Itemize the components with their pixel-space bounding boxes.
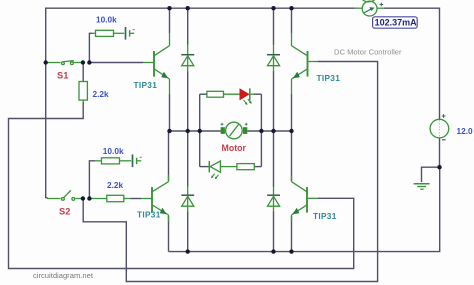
diode D1 bbox=[181, 44, 194, 72]
wire D2 top bbox=[273, 8, 275, 45]
svg-text:S2: S2 bbox=[59, 207, 70, 217]
wire ground tap bbox=[422, 167, 440, 182]
wire mid node right bbox=[247, 130, 291, 132]
junction top rail at Q2 collector bbox=[289, 6, 293, 10]
svg-text:circuitdiagram.net: circuitdiagram.net bbox=[33, 271, 94, 280]
wire subcircuit left vertical bbox=[199, 94, 201, 166]
wire R2 bottom to Q4 base bbox=[9, 102, 354, 269]
wire battery V1 to ground junction bbox=[439, 138, 441, 167]
ammeter readout box 102.37mA bbox=[373, 17, 418, 28]
wire Q1 collector rail bbox=[169, 8, 171, 33]
wire top rail right bbox=[384, 8, 440, 119]
battery +V symbol at R1 bbox=[126, 27, 135, 40]
junction mid node at Q2 emitter bbox=[289, 129, 293, 133]
diode D3 bbox=[181, 186, 194, 212]
battery +V symbol at R3 bbox=[133, 155, 142, 168]
junction top rail at D1 bbox=[186, 6, 190, 10]
junction bottom rail at Q4 emitter bbox=[289, 249, 293, 253]
switch S1 bbox=[47, 61, 82, 65]
junction ground tap bbox=[437, 165, 441, 169]
wire left feed S1 to S2 bbox=[46, 63, 48, 198]
wire D3 top bbox=[187, 131, 189, 187]
junction bottom rail at D4 bbox=[271, 249, 275, 253]
resistor R5 top branch bbox=[207, 91, 240, 97]
svg-text:2.2k: 2.2k bbox=[107, 180, 124, 190]
resistor R3 10.0k lower bbox=[95, 158, 131, 164]
transistor Q4 TIP31 lower-right (mirrored) bbox=[292, 175, 319, 222]
wire Q3 collector to mid node bbox=[168, 131, 170, 181]
transistor Q2 TIP31 (mirrored) bbox=[292, 33, 319, 95]
ground symbol bbox=[414, 184, 430, 190]
wire D1 bottom bbox=[187, 71, 189, 131]
svg-text:102.37mA: 102.37mA bbox=[375, 18, 418, 28]
resistor R4 2.2k lower bbox=[91, 195, 142, 201]
switch S2 bbox=[47, 190, 82, 200]
svg-text:Motor: Motor bbox=[222, 143, 247, 153]
battery V1 12V source bbox=[430, 114, 449, 140]
wire R3 left lead drop bbox=[89, 161, 95, 199]
junction S2 right at branch bbox=[81, 196, 85, 200]
wire S1 row to Q1 base bbox=[89, 62, 143, 64]
transistor Q3 TIP31 lower-left bbox=[141, 175, 169, 222]
LED D5 red (lit) bbox=[240, 88, 255, 105]
wire Q3 emitter to bottom rail bbox=[168, 216, 170, 252]
junction S2 right at R3 bbox=[87, 196, 91, 200]
wire Q4 collector to mid node bbox=[291, 131, 293, 181]
motor M1 bbox=[221, 122, 248, 139]
wire D4 bottom bbox=[273, 211, 275, 252]
junction mid node at Q1 emitter bbox=[167, 129, 171, 133]
ammeter A1 bbox=[355, 0, 384, 16]
svg-text:S1: S1 bbox=[57, 71, 68, 81]
wire Q2 emitter to mid node bbox=[291, 94, 293, 131]
wire Q1 emitter to mid node bbox=[169, 94, 171, 131]
wire D4 top bbox=[273, 131, 275, 187]
transistor Q1 TIP31 bbox=[143, 33, 170, 95]
wire subcircuit bottom branch left bbox=[200, 166, 209, 168]
junction mid node at subcircuit right bbox=[259, 129, 263, 133]
svg-text:TIP31: TIP31 bbox=[317, 73, 341, 83]
wire subcircuit top branch bbox=[200, 93, 207, 95]
svg-text:10.0k: 10.0k bbox=[96, 15, 117, 25]
resistor R1 10.0k bbox=[92, 30, 124, 36]
wire bottom rail bbox=[169, 167, 440, 251]
junction S1 right at R1 bbox=[87, 60, 91, 64]
diode D4 bbox=[267, 186, 280, 212]
wire D2 bottom bbox=[273, 71, 275, 131]
svg-text:DC Motor Controller: DC Motor Controller bbox=[334, 47, 402, 56]
diode D2 bbox=[267, 44, 280, 72]
svg-text:12.0: 12.0 bbox=[457, 126, 474, 136]
junction mid node at D1 bbox=[186, 129, 190, 133]
junction top rail at Q1 collector bbox=[167, 6, 171, 10]
wire R1 left lead drop bbox=[89, 33, 92, 62]
svg-text:2.2k: 2.2k bbox=[93, 89, 110, 99]
junction bottom rail at D3 bbox=[186, 249, 190, 253]
wire LED D5 to right vertical bbox=[254, 93, 261, 95]
LED D6 green (off) bbox=[209, 161, 237, 179]
junction top rail at D2 bbox=[271, 6, 275, 10]
wire S2 branch to Q2 base bbox=[83, 62, 377, 282]
wire D1 top bbox=[187, 8, 189, 45]
junction S1 right at R2 bbox=[81, 60, 85, 64]
wire R6 to right vertical bbox=[254, 166, 261, 168]
junction mid node at D2 bbox=[271, 129, 275, 133]
wire Q2 collector rail bbox=[291, 8, 293, 33]
wire subcircuit right vertical bbox=[260, 94, 262, 166]
wire mid node left bbox=[170, 130, 221, 132]
svg-text:10.0k: 10.0k bbox=[103, 146, 124, 156]
junction S1 left bbox=[44, 60, 48, 64]
wire D3 bottom bbox=[187, 211, 189, 252]
wire top rail left bbox=[46, 8, 355, 62]
resistor R6 bottom branch bbox=[237, 164, 254, 170]
svg-text:TIP31: TIP31 bbox=[313, 211, 337, 221]
resistor R2 2.2k vertical bbox=[79, 63, 87, 103]
svg-text:TIP31: TIP31 bbox=[137, 210, 161, 220]
junction mid node at subcircuit left bbox=[198, 129, 202, 133]
wire Q4 emitter to bottom rail bbox=[291, 216, 293, 252]
svg-text:TIP31: TIP31 bbox=[134, 80, 158, 90]
